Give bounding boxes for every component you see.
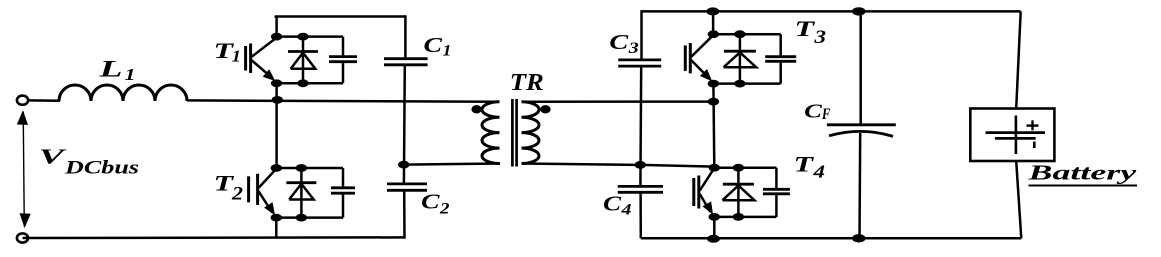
node bottom rail / CF [852,234,866,242]
wire C3/C4 bus middle [639,66,642,186]
diode antiparallel with T2 [286,168,316,218]
wire C3/C4 bus upper [640,10,643,59]
wire T4 emitter to bottom rail [713,217,716,239]
svg-text:4: 4 [812,162,825,182]
wire top rail secondary side [642,10,1021,13]
capacitor snubber of T4 [763,168,790,217]
svg-text:C: C [424,33,444,57]
wire C1/C2 bus middle [403,65,406,184]
wire T4 cell top [714,166,776,169]
node T3 emitter junction [708,80,719,88]
transistor T4 (IGBT) [694,169,714,215]
svg-text:T: T [795,16,817,41]
wire bottom rail secondary side [641,237,1022,240]
wire CF lower [858,133,861,238]
svg-text:1: 1 [443,43,452,60]
svg-text:3: 3 [813,27,826,48]
V_DCbus measurement arrow [17,110,31,228]
transistor T3 (IGBT) [685,36,712,82]
wire mid rail from L1 to transformer primary [187,100,499,101]
svg-text:3: 3 [628,40,639,57]
wire T4 cell bottom [714,216,776,219]
svg-text:C: C [421,190,441,214]
capacitor C1 [384,59,428,65]
svg-text:F: F [821,106,831,123]
transistor T2 (IGBT) [249,170,276,216]
node diode bottom junction (T4) [733,213,744,221]
wire C1/C2 bus lower [403,190,406,238]
svg-text:T: T [794,152,816,177]
svg-text:1: 1 [232,47,242,66]
node top rail / CF [852,7,866,15]
capacitor snubber of T2 [331,168,355,218]
svg-text:4: 4 [620,202,631,219]
svg-text:C: C [804,101,823,123]
svg-text:1: 1 [125,65,136,84]
node diode bottom junction (T1) [297,79,308,87]
wire bottom rail primary side [23,236,406,239]
wire T1 cell top [277,35,343,38]
capacitor snubber of T3 [765,34,796,83]
svg-text:2: 2 [439,201,450,218]
node C3-C4 midpoint [635,161,646,169]
wire CF upper [859,11,862,124]
wire T2 leg to bottom rail [275,218,278,238]
wire T1-T2 midpoint leg [275,83,278,168]
node T2 collector junction [271,164,282,172]
wire from top terminal to L1 [28,99,60,102]
polarity dot secondary [540,105,550,113]
svg-text:Battery: Battery [1027,161,1138,185]
node bottom rail / T4 leg [707,235,720,243]
svg-text:DCbus: DCbus [64,158,139,179]
transistor T1 (IGBT) [246,38,276,81]
polarity dot primary [471,105,481,113]
node diode top junction (T1) [297,33,308,41]
input terminal top-left [17,96,28,105]
svg-text:C: C [603,192,622,216]
inductor L1 [59,85,187,101]
capacitor snubber of T1 [329,37,357,84]
node bridge midpoint (to L1 rail) [272,96,283,104]
input terminal bottom-left [17,233,28,242]
diode antiparallel with T4 [722,168,754,217]
node diode top junction (T4) [733,164,744,172]
wire T2 cell bottom [276,216,343,219]
wire top rail primary side [275,15,406,18]
wire battery branch upper [1016,11,1021,108]
wire secondary bottom lead [522,164,641,165]
transformer TR secondary winding [522,102,540,164]
wire T2 cell top [276,167,343,170]
wire C3/C4 bus lower [639,192,642,238]
svg-text:TR: TR [510,70,544,96]
node T2 emitter junction [271,214,282,222]
wire T3 leg from top rail [712,11,715,34]
capacitor CF (polarized) [827,125,896,137]
node diode bottom junction (T2) [296,214,307,222]
underline of Battery label [1029,185,1138,187]
node diode top junction (T2) [296,164,307,172]
wire secondary top lead [522,100,714,103]
battery (boxed symbol) [970,109,1054,162]
capacitor C2 [387,184,427,190]
wire battery branch lower [1016,161,1021,238]
node diode top junction (T3) [734,30,745,38]
node top rail / T3 leg [706,7,719,15]
capacitor C4 [618,186,663,192]
diode antiparallel with T1 [288,37,318,84]
wire T3-T4 leg middle [712,102,715,167]
svg-text:V: V [39,145,68,169]
wire C1/C2 bus upper [404,15,407,58]
node secondary top / T3-T4 leg [708,98,719,106]
node T1 collector junction [271,33,282,41]
wire T3 emitter to secondary-top node [712,84,715,102]
node C1-C2 midpoint [398,161,409,169]
node T3 collector junction [708,30,719,38]
wire T3 cell bottom [713,82,780,85]
node T1 emitter junction [271,79,282,87]
transformer TR primary winding [482,102,500,164]
capacitor C3 [618,60,661,66]
transformer TR core [512,99,516,167]
svg-text:L: L [98,57,123,82]
svg-text:C: C [609,30,629,54]
node diode bottom junction (T3) [734,80,745,88]
wire T1 leg from top rail [275,16,278,38]
wire C3-C4 midpoint to T4 collector [640,165,714,167]
svg-text:2: 2 [231,184,244,205]
node T4 collector junction [709,164,720,172]
diode antiparallel with T3 [724,34,757,83]
wire T3 cell top [713,33,780,36]
wire primary bottom lead [404,164,500,165]
node T4 emitter junction [709,213,720,221]
wire T1 cell bottom [277,82,343,85]
